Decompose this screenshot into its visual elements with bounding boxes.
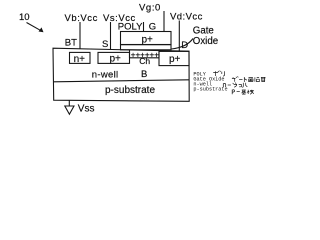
svg-text:p-substrate: p-substrate [105,85,155,96]
svg-text:n+: n+ [74,54,86,65]
svg-text:p+: p+ [169,54,181,65]
svg-text:Vb:Vcc: Vb:Vcc [65,13,98,24]
svg-text:Vss: Vss [78,104,95,115]
svg-text:S: S [102,39,108,50]
svg-text:Vg:0: Vg:0 [139,3,161,14]
svg-text:p+: p+ [110,54,122,65]
svg-text:D: D [181,40,188,51]
svg-text:p-substrate: p-substrate [193,87,227,93]
svg-text:n-well: n-well [92,70,119,81]
svg-text:POLY: POLY [118,22,143,33]
svg-text:Vd:Vcc: Vd:Vcc [170,12,203,23]
svg-text:10: 10 [19,12,30,23]
svg-text:Gate: Gate [193,25,214,36]
svg-text:G: G [149,22,156,33]
svg-text:Oxide: Oxide [193,36,218,47]
svg-text:B: B [141,69,147,80]
svg-text:Ch: Ch [139,56,150,66]
svg-text:BT: BT [65,37,77,48]
svg-text:p+: p+ [142,34,154,45]
